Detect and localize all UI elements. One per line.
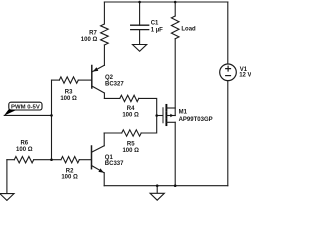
- transistor Q1 emitter diagonal: [92, 166, 105, 173]
- flag PWM 0-5V callout: [4, 102, 42, 116]
- resistor R3: [59, 77, 78, 83]
- wire R7 top (rail to R7): [103, 2, 105, 24]
- svg-text:PWM 0-5V: PWM 0-5V: [11, 104, 40, 110]
- mosfet M1 drain tap (bottom): [166, 121, 175, 123]
- svg-text:BC337: BC337: [105, 161, 124, 167]
- ground (below R6): [0, 194, 14, 201]
- resistor R5: [122, 130, 142, 136]
- wire load top (rail to Load): [174, 2, 176, 16]
- transistor Q2 emitter diagonal: [92, 65, 105, 72]
- voltage source V1 plus sign: [226, 66, 231, 71]
- transistor Q2 PNP arrow: [93, 67, 99, 71]
- wire R5 to gate corner: [141, 116, 157, 134]
- node gate junction: [155, 114, 158, 117]
- mosfet M1 source tap (top): [166, 107, 175, 109]
- wire node to R2: [52, 159, 62, 161]
- wire R6 left corner: [7, 159, 14, 161]
- svg-text:BC327: BC327: [105, 81, 124, 87]
- node ground junction: [156, 184, 159, 187]
- wire Load bottom to M1 source/body: [174, 39, 176, 116]
- svg-text:100 Ω: 100 Ω: [60, 96, 77, 102]
- mosfet M1 channel segment middle: [165, 112, 167, 117]
- ground (below C1): [133, 45, 147, 52]
- voltage source V1 circle: [220, 64, 237, 81]
- svg-text:100 Ω: 100 Ω: [61, 174, 78, 180]
- wire R7 to Q2 emitter: [103, 45, 105, 65]
- wire right vertical upper (rail to V1): [227, 2, 229, 64]
- mosfet M1 body tap (middle): [166, 115, 175, 117]
- mosfet M1 channel segment bottom: [165, 119, 167, 125]
- node M1 drain junction: [174, 184, 177, 187]
- transistor Q2 collector diagonal: [92, 86, 105, 93]
- transistor Q2 base bar: [91, 66, 93, 89]
- ground (bottom rail): [150, 193, 164, 200]
- wire R6 to node: [34, 159, 52, 161]
- wire PWM node down to R2/R6 node: [51, 115, 53, 159]
- svg-text:M1: M1: [179, 110, 188, 116]
- wire R2 to Q1 base: [79, 159, 91, 161]
- wire R3 left vertical (R3 to PWM node): [51, 80, 53, 115]
- node R6/R2 junction: [50, 158, 53, 161]
- svg-text:R3: R3: [65, 90, 73, 96]
- resistor R7: [101, 24, 109, 45]
- resistor R6: [14, 157, 33, 163]
- svg-text:AP99T03GP: AP99T03GP: [179, 117, 213, 123]
- wire PWM input: [4, 114, 51, 116]
- wire Q1 collector up: [103, 133, 105, 146]
- svg-text:Load: Load: [181, 27, 196, 33]
- voltage source V1 minus sign: [226, 75, 231, 77]
- wire Q1 emitter to bottom rail: [103, 173, 105, 186]
- wire R3 to Q2 base: [78, 79, 92, 81]
- svg-text:100 Ω: 100 Ω: [81, 37, 98, 43]
- svg-text:12 V: 12 V: [239, 73, 251, 79]
- capacitor C1: [131, 25, 149, 29]
- svg-text:C1: C1: [151, 21, 159, 27]
- node PWM junction: [50, 114, 53, 117]
- svg-text:100 Ω: 100 Ω: [122, 148, 139, 154]
- wire R4 to gate corner: [139, 98, 157, 115]
- svg-text:100 Ω: 100 Ω: [122, 112, 139, 118]
- transistor Q1 NPN arrow: [98, 168, 104, 172]
- wire Q2 collector to R4: [104, 97, 119, 99]
- node C1 top junction: [138, 1, 141, 4]
- transistor Q1 collector diagonal: [92, 146, 105, 153]
- mosfet M1 body arrow: [170, 114, 173, 117]
- svg-text:R7: R7: [89, 31, 97, 37]
- resistor R2: [61, 157, 79, 163]
- wire right vertical lower (V1 to bottom rail): [227, 81, 229, 186]
- wire Q2 collector drop: [103, 93, 105, 98]
- wire bottom rail: [104, 185, 228, 187]
- wire top rail: [104, 1, 227, 3]
- wire Q1 collector to R5: [104, 132, 122, 134]
- svg-text:100 Ω: 100 Ω: [16, 147, 33, 153]
- wire R6 left vertical to ground: [6, 160, 8, 194]
- mosfet M1 channel segment top: [165, 105, 167, 110]
- wire M1 drain to bottom rail: [174, 122, 176, 185]
- wire C1 top (rail to C1): [139, 2, 141, 25]
- wire gate node to M1 gate: [157, 115, 163, 117]
- node Load top junction: [174, 1, 177, 4]
- resistor R4: [120, 95, 139, 101]
- svg-text:R5: R5: [127, 142, 135, 148]
- wire bottom ground stub: [156, 186, 158, 194]
- svg-text:R4: R4: [127, 106, 135, 112]
- resistor Load: [171, 16, 179, 39]
- wire C1 to ground: [139, 30, 141, 45]
- mosfet M1 gate bar: [162, 108, 164, 123]
- wire R3 left stub: [52, 79, 60, 81]
- svg-text:Q2: Q2: [105, 75, 114, 81]
- svg-text:1 µF: 1 µF: [151, 27, 163, 33]
- transistor Q1 base bar: [91, 146, 93, 169]
- svg-text:R6: R6: [20, 141, 28, 147]
